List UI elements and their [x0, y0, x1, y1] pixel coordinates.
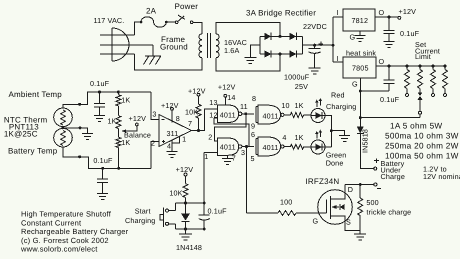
wire gate2 pin7 ground — [227, 155, 229, 158]
jack terminal R1 — [406, 89, 409, 97]
wire diode to battery+ — [360, 134, 374, 169]
ground C2 — [384, 41, 395, 47]
wire opamp out — [192, 129, 201, 132]
label 1K R9 — [121, 138, 130, 147]
wire gate3 out — [284, 114, 290, 116]
svg-text:www.solorb.com/elect: www.solorb.com/elect — [20, 245, 98, 254]
label +12V start — [176, 165, 194, 174]
svg-text:+12V: +12V — [176, 165, 194, 174]
svg-text:25V: 25V — [295, 82, 308, 91]
ground C1 — [309, 68, 321, 74]
label heat sink — [346, 48, 376, 57]
wire start row — [176, 202, 206, 205]
resistor R11 1K — [290, 113, 311, 118]
svg-text:0.1uF: 0.1uF — [90, 79, 110, 88]
resistor R10 10K pullup — [196, 96, 201, 130]
label Red Charging — [326, 91, 356, 112]
svg-text:0.1uF: 0.1uF — [93, 156, 113, 165]
transformer T1 secondary — [216, 34, 219, 58]
svg-text:1: 1 — [204, 152, 208, 161]
bridge rails — [260, 36, 303, 54]
svg-text:100: 100 — [280, 198, 292, 207]
svg-text:IN5818: IN5818 — [361, 129, 370, 153]
svg-text:2: 2 — [151, 138, 155, 147]
label 22VDC — [303, 22, 327, 31]
wire out to gate1 pin13 — [199, 109, 218, 130]
svg-text:Ambient Temp: Ambient Temp — [9, 90, 63, 99]
label pin7 gate2 — [232, 153, 236, 162]
svg-text:1.6A: 1.6A — [224, 46, 239, 55]
label D — [348, 185, 353, 194]
terminal battery minus — [374, 183, 381, 189]
label 0.1uF C2 — [400, 29, 420, 38]
node rail dots — [101, 167, 120, 170]
capacitor C4 0.1uF — [94, 91, 105, 116]
transformer T1 primary — [199, 34, 202, 58]
label pin7 — [188, 119, 192, 128]
ground gate2 — [222, 159, 233, 165]
svg-text:+12V: +12V — [399, 7, 417, 16]
svg-text:1K@25C: 1K@25C — [4, 130, 38, 139]
svg-text:trickle charge: trickle charge — [366, 207, 411, 216]
Q1 drain lead — [331, 185, 345, 200]
label pin13 — [209, 98, 217, 107]
wire secondary top to bridge — [216, 23, 280, 37]
svg-text:7812: 7812 — [352, 16, 369, 25]
wire +22V rail — [302, 44, 334, 47]
potentiometer R8 1K balance — [116, 116, 137, 133]
Q1 arrow — [332, 205, 340, 209]
label G 7805 — [352, 80, 358, 89]
gate U4a 4011 — [217, 105, 242, 123]
Q1 gate plate — [327, 196, 331, 219]
wire battery temp bottom — [63, 147, 151, 168]
label Start Charging — [125, 206, 155, 225]
label 10K start — [169, 188, 182, 197]
thermistor TH2 battery — [54, 128, 73, 147]
resistor current-set R1 — [405, 65, 410, 89]
label Battery Under Charge — [381, 159, 405, 181]
AC plug P1 — [112, 28, 129, 61]
wire G column — [359, 91, 361, 126]
node thermistor mid — [61, 126, 87, 133]
svg-text:Start: Start — [135, 206, 151, 215]
wire bottom rail to pin2 — [151, 142, 159, 169]
svg-text:G: G — [313, 217, 319, 226]
wire gate1 out to gate2 in — [214, 114, 245, 141]
terminal +12V start — [184, 173, 187, 184]
ground 7812 — [355, 35, 366, 41]
label Frame Ground — [160, 35, 188, 52]
svg-text:117 VAC.: 117 VAC. — [94, 16, 125, 25]
credits text — [20, 210, 129, 254]
capacitor C6 0.1uF — [199, 153, 210, 230]
wire to 7805 input — [333, 61, 343, 63]
svg-text:heat sink: heat sink — [346, 48, 376, 57]
resistor R5 500 — [358, 185, 363, 231]
svg-text:+12V: +12V — [218, 83, 236, 92]
wire 7805 out rail — [376, 65, 446, 68]
wire to 7812 input — [333, 16, 343, 18]
label 1N4148 — [176, 243, 202, 252]
ground opamp — [167, 152, 178, 158]
label pin3 — [152, 110, 156, 119]
svg-text:G: G — [352, 80, 358, 89]
label 1K R12 — [295, 133, 304, 142]
label pin2 — [151, 138, 155, 147]
label 0.1uF bottom — [93, 156, 113, 165]
pushbutton S2 start — [160, 203, 176, 229]
svg-text:(c) G. Forrest Cook 2002: (c) G. Forrest Cook 2002 — [21, 236, 109, 245]
jack terminal R4 — [444, 89, 447, 97]
svg-text:Battery Temp: Battery Temp — [8, 147, 58, 156]
svg-text:0.1uF: 0.1uF — [400, 29, 420, 38]
label 1K pot — [108, 116, 117, 125]
svg-text:1N4148: 1N4148 — [176, 243, 202, 252]
wire gate4 out — [284, 146, 290, 148]
label O 7805 — [379, 57, 385, 66]
wire start bottom rail — [176, 228, 206, 231]
svg-text:1K: 1K — [121, 95, 130, 104]
gate U4d 4011 — [256, 137, 284, 156]
svg-text:0.1uF: 0.1uF — [208, 207, 228, 216]
wire top rail to pin3 — [151, 92, 159, 120]
svg-text:Limit: Limit — [415, 52, 431, 61]
node chain top — [117, 91, 120, 94]
svg-text:500ma 10 ohm 3W: 500ma 10 ohm 3W — [385, 132, 459, 141]
wire gate2 pin1 — [204, 152, 217, 154]
label 2A — [146, 7, 157, 16]
svg-text:8: 8 — [252, 94, 256, 103]
svg-text:22VDC: 22VDC — [303, 22, 327, 31]
terminal +12V gate1 — [224, 94, 227, 105]
svg-text:High Temperature Shutoff: High Temperature Shutoff — [21, 210, 112, 219]
label S — [346, 217, 351, 226]
power switch S1 — [175, 15, 193, 24]
svg-text:1K: 1K — [295, 101, 304, 110]
label 100 — [280, 198, 292, 207]
bridge negative to ground — [250, 45, 259, 57]
svg-text:4: 4 — [282, 133, 286, 142]
label +12V pullup — [188, 87, 206, 96]
node bridge AC top — [279, 35, 282, 38]
svg-text:Charging: Charging — [125, 216, 155, 225]
wire pot to R9 — [117, 129, 119, 138]
label +12V gate1 — [218, 83, 236, 92]
svg-text:Rechargeable Battery Charger: Rechargeable Battery Charger — [21, 227, 129, 236]
resistor R6 100 — [247, 211, 327, 216]
svg-text:2: 2 — [208, 133, 212, 142]
svg-text:3: 3 — [152, 110, 156, 119]
op-amp minus — [162, 119, 165, 121]
resistor current-set R3 — [431, 65, 436, 89]
svg-text:4011: 4011 — [220, 143, 236, 152]
wire ambient top — [63, 92, 151, 108]
ground Q1 source — [354, 231, 366, 241]
label 1000uF 25V — [284, 73, 310, 92]
label pin1 gate2 — [204, 152, 208, 161]
label pin14 — [227, 93, 235, 102]
wire gate2 out — [242, 145, 254, 148]
label pin4 — [167, 141, 171, 150]
bridge diode D1 — [264, 33, 271, 40]
wire plug to fuse — [135, 22, 142, 35]
svg-text:7: 7 — [188, 119, 192, 128]
label Ambient Temp — [9, 90, 63, 99]
svg-text:S: S — [346, 217, 351, 226]
label pin1 — [182, 134, 186, 143]
capacitor C1 1000uF — [309, 42, 324, 69]
ground bridge — [244, 58, 256, 64]
jack terminal R3 — [432, 89, 435, 97]
svg-text:5: 5 — [251, 154, 255, 163]
svg-text:Done: Done — [326, 159, 344, 168]
label +12V opamp — [161, 101, 179, 110]
wire 7812 out — [375, 16, 398, 19]
label 500 trickle charge — [366, 198, 411, 216]
wire green cathode — [325, 146, 331, 148]
ground LEDs — [331, 131, 350, 142]
svg-text:1000uF: 1000uF — [284, 73, 310, 82]
label +12V balance — [129, 114, 147, 123]
svg-text:Charging: Charging — [326, 102, 356, 111]
label pin11 — [240, 102, 248, 111]
diode D5 IN5818 — [357, 127, 364, 134]
label +12V main — [399, 7, 417, 16]
transformer core — [208, 33, 211, 58]
capacitor C3 0.1uF — [360, 66, 394, 91]
svg-text:3: 3 — [241, 148, 245, 157]
wire pin4 — [171, 140, 173, 151]
regulator U3 7805 — [343, 57, 376, 78]
terminal +12V balance — [135, 123, 138, 126]
svg-text:311: 311 — [167, 129, 179, 138]
svg-text:+12V: +12V — [188, 87, 206, 96]
label Battery Temp — [8, 147, 58, 156]
svg-text:4011: 4011 — [263, 143, 279, 152]
label IN5818 — [361, 129, 370, 153]
wire secondary bottom to bridge — [216, 54, 280, 71]
svg-text:7805: 7805 — [352, 64, 369, 73]
svg-text:13: 13 — [209, 98, 217, 107]
label IRFZ34N — [306, 177, 340, 186]
svg-text:1K: 1K — [295, 133, 304, 142]
wire red cathode — [325, 116, 333, 148]
label Balance — [124, 131, 151, 140]
label 1.2V to 12V nominal — [423, 165, 460, 182]
LED red charging — [311, 98, 325, 123]
svg-text:10: 10 — [281, 101, 289, 110]
label pin8 gate3 — [252, 94, 256, 103]
svg-text:I: I — [337, 8, 339, 17]
svg-text:D: D — [348, 185, 353, 194]
ground C5 — [97, 194, 108, 200]
label I 7805 — [337, 54, 339, 63]
svg-text:2A: 2A — [146, 7, 157, 16]
label G mosfet — [313, 217, 319, 226]
svg-text:O: O — [379, 8, 385, 17]
label pin10 gate3 — [281, 101, 289, 110]
svg-text:+12V: +12V — [129, 114, 147, 123]
wire pin1 — [172, 137, 179, 143]
svg-text:14: 14 — [227, 93, 235, 102]
wire gate2 out to mosfet — [246, 147, 248, 214]
label 3A Bridge Rectifier — [246, 8, 316, 17]
Q1 body diode — [340, 204, 345, 210]
svg-text:1K: 1K — [108, 116, 117, 125]
svg-text:+12V: +12V — [161, 101, 179, 110]
label 1K R7 — [121, 95, 130, 104]
label Set Current Limit — [415, 40, 440, 61]
terminal +12V pullup — [197, 93, 200, 96]
svg-text:4011: 4011 — [220, 110, 236, 119]
frame ground wire — [152, 45, 154, 56]
label 0.1uF C3 — [380, 95, 400, 104]
label Green Done — [326, 151, 347, 168]
svg-text:G: G — [350, 32, 356, 41]
label 0.1uF top — [90, 79, 110, 88]
capacitor C5 0.1uF — [97, 168, 108, 193]
terminal +12V main — [398, 16, 401, 19]
svg-text:I: I — [337, 54, 339, 63]
terminal battery plus — [374, 158, 379, 170]
fuse F1 2A — [140, 17, 168, 27]
label pin6 gate4 — [251, 130, 255, 139]
transistor Q1 IRFZ34N body — [318, 190, 353, 225]
wire R7 to pot — [117, 106, 119, 116]
svg-text:4: 4 — [167, 141, 171, 150]
label pin4 gate4 — [282, 133, 286, 142]
wire plug bottom to transformer — [135, 54, 203, 70]
plug into R2 — [418, 89, 423, 118]
wire latch feedback — [214, 118, 249, 146]
label pin8 — [176, 114, 180, 123]
terminal +12V opamp — [171, 107, 174, 122]
resistor R13 10K — [183, 184, 188, 203]
svg-text:IRFZ34N: IRFZ34N — [306, 177, 340, 186]
svg-text:12V nominal: 12V nominal — [423, 172, 460, 181]
resistor current-set R4 — [443, 65, 448, 89]
ground thermistor mid — [82, 134, 93, 140]
label 0.1uF C6 — [208, 207, 228, 216]
gate U4c 4011 — [256, 105, 284, 124]
wire fuse to switch — [166, 21, 175, 23]
svg-text:1A 5 ohm 5W: 1A 5 ohm 5W — [390, 122, 442, 131]
label 10K pullup — [185, 108, 198, 117]
wire 22V rail vertical — [332, 17, 334, 62]
gate U4b 4011 — [217, 138, 242, 155]
regulator U2 7812 — [343, 9, 375, 31]
LED green done — [311, 130, 325, 155]
label 16VAC 1.6A — [224, 38, 247, 55]
svg-text:7: 7 — [232, 153, 236, 162]
wire gate1 out — [242, 112, 254, 115]
label G 7812 — [350, 32, 356, 41]
svg-text:8: 8 — [176, 114, 180, 123]
svg-text:1K: 1K — [121, 138, 130, 147]
ground start — [179, 229, 192, 240]
op-amp U1 311 — [159, 115, 192, 147]
wire switch to transformer — [193, 22, 202, 33]
bridge diode D2 — [290, 33, 297, 40]
label current table — [385, 122, 459, 161]
svg-text:11: 11 — [240, 102, 248, 111]
wire drain row — [345, 183, 374, 186]
frame ground symbol — [144, 56, 162, 65]
svg-text:6: 6 — [251, 130, 255, 139]
resistor current-set R2 — [418, 65, 423, 89]
label O 7812 — [379, 8, 385, 17]
svg-text:0.1uF: 0.1uF — [380, 95, 400, 104]
label pin3 gate2 — [241, 148, 245, 157]
node bridge AC bottom — [279, 53, 282, 56]
svg-text:500: 500 — [366, 198, 378, 207]
capacitor C2 0.1uF — [384, 17, 395, 41]
label pin12 — [209, 110, 217, 119]
label pin9 gate3 — [251, 122, 255, 131]
svg-text:10K: 10K — [185, 108, 198, 117]
resistor R9 1K — [116, 137, 121, 168]
label Power — [175, 2, 199, 11]
resistor R7 1K — [116, 92, 121, 106]
bridge diode D4 — [290, 50, 297, 57]
svg-text:10K: 10K — [169, 188, 182, 197]
svg-text:Red: Red — [331, 91, 345, 100]
svg-text:Ground: Ground — [160, 43, 188, 52]
svg-text:250ma 20 ohm 2W: 250ma 20 ohm 2W — [385, 142, 459, 151]
ground C4 — [94, 116, 105, 122]
svg-text:Charge: Charge — [381, 172, 405, 181]
bridge diode D3 — [264, 50, 271, 57]
resistor R12 1K — [290, 144, 311, 149]
label NTC Therm PNT113 1K@25C — [4, 116, 48, 139]
svg-text:Power: Power — [175, 2, 199, 11]
svg-text:O: O — [379, 57, 385, 66]
label 117 VAC — [94, 16, 125, 25]
label pin2 gate2 — [208, 133, 212, 142]
wire 7812 ground — [359, 31, 361, 35]
wire 7805 G — [359, 78, 362, 93]
Q1 source lead — [331, 216, 361, 231]
thermistor TH1 ambient — [54, 108, 73, 127]
label 1K R11 — [295, 101, 304, 110]
diode D6 1N4148 — [181, 203, 190, 229]
op-amp plus — [162, 140, 165, 143]
svg-text:3A Bridge Rectifier: 3A Bridge Rectifier — [246, 8, 316, 17]
label pin5 gate4 — [251, 154, 255, 163]
plug prong wires — [100, 35, 153, 54]
svg-text:Constant Current: Constant Current — [21, 218, 82, 227]
svg-text:1: 1 — [182, 134, 186, 143]
wire bank return — [359, 116, 420, 119]
label I 7812 — [337, 8, 339, 17]
svg-text:4011: 4011 — [263, 111, 279, 120]
